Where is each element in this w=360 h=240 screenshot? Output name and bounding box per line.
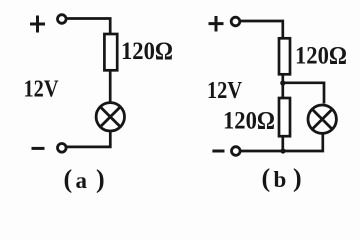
svg-text:12V: 12V (24, 76, 59, 103)
svg-text:(: ( (262, 164, 271, 193)
svg-text:120Ω: 120Ω (121, 38, 173, 65)
svg-text:b: b (274, 167, 287, 192)
svg-text:a: a (76, 168, 88, 193)
svg-text:120Ω: 120Ω (295, 42, 347, 69)
svg-text:): ) (96, 165, 105, 194)
svg-text:): ) (293, 164, 302, 193)
svg-text:120Ω: 120Ω (223, 108, 275, 135)
svg-text:(: ( (64, 165, 73, 194)
svg-text:12V: 12V (207, 77, 242, 104)
